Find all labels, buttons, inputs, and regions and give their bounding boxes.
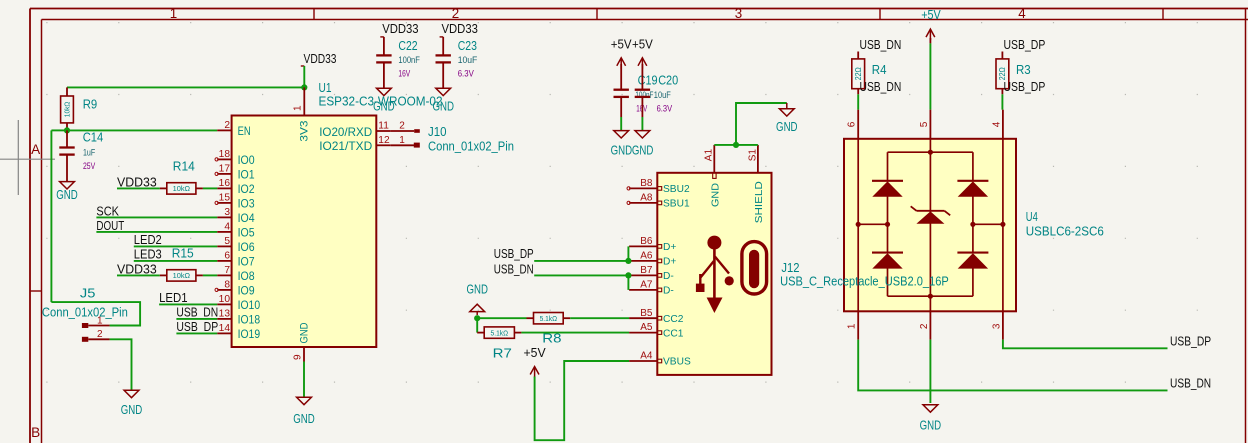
wire A1-S1 to GND [714, 144, 758, 146]
svg-text:R4: R4 [872, 62, 887, 77]
svg-text:USB_DN: USB_DN [860, 79, 902, 94]
svg-text:USB_DP: USB_DP [176, 319, 218, 334]
U1 pin 6 IO7 [217, 260, 231, 262]
svg-text:10kΩ: 10kΩ [63, 101, 72, 117]
connector J10 pin 1 [391, 144, 414, 146]
svg-text:13: 13 [219, 309, 231, 320]
svg-text:LED3: LED3 [134, 247, 162, 262]
J12 pin S1 SHIELD [757, 145, 759, 173]
svg-text:5: 5 [224, 236, 230, 247]
J12 pin A8 SBU1 [629, 202, 657, 204]
U1 pin 14 IO19 [217, 332, 231, 334]
svg-text:LED1: LED1 [159, 290, 188, 305]
svg-text:USB_C_Receptacle_USB2.0_16P: USB_C_Receptacle_USB2.0_16P [780, 273, 949, 288]
svg-text:J10: J10 [428, 124, 447, 139]
wire USB_DP to A6 [534, 260, 629, 262]
ground GND right of J12 [779, 109, 794, 116]
ground GND below C19 [614, 131, 629, 138]
wire GND to R8 [477, 317, 526, 319]
svg-text:EN: EN [238, 124, 251, 138]
svg-text:GND: GND [373, 100, 395, 114]
U4 internal rails [857, 139, 859, 311]
svg-text:1: 1 [399, 135, 405, 146]
svg-text:R3: R3 [1016, 62, 1031, 77]
J12 pin B7 D- [629, 274, 657, 276]
svg-text:GND: GND [432, 100, 454, 114]
U4 pin 2 [929, 311, 931, 339]
svg-text:GND: GND [56, 188, 78, 202]
ground GND below J5 [124, 390, 139, 397]
svg-text:R9: R9 [83, 97, 98, 112]
diode D-bottomleft in U4 [872, 252, 903, 254]
ground GND below C20 [635, 131, 650, 138]
svg-text:B: B [31, 425, 40, 440]
svg-text:10uF: 10uF [654, 89, 671, 100]
wire B7 to A7 [627, 275, 629, 290]
node VDD33 junction [301, 84, 307, 90]
svg-text:IO3: IO3 [238, 197, 255, 211]
J12 USB logo icon [696, 236, 734, 313]
svg-text:VDD33: VDD33 [304, 51, 337, 66]
U1 pin 17 IO1 [217, 173, 231, 175]
wire J5 pin2 to GND [110, 339, 132, 390]
J12 pin A7 D- [629, 289, 657, 291]
svg-text:IO7: IO7 [238, 255, 255, 269]
svg-text:+5V: +5V [632, 37, 653, 52]
svg-text:USB_DN: USB_DN [176, 304, 218, 319]
svg-text:SBU2: SBU2 [663, 184, 690, 195]
ic U1 ESP32-C3-WROOM-02 body [232, 116, 377, 348]
connector J12 USB-C receptacle body [657, 173, 771, 375]
svg-text:B8: B8 [640, 178, 653, 189]
svg-text:17: 17 [219, 164, 231, 175]
diode D-topright in U4 [957, 180, 988, 182]
svg-text:U4: U4 [1026, 209, 1038, 224]
wire U4 pin1 to USB_DN [858, 340, 1167, 391]
svg-text:D-: D- [663, 271, 674, 282]
U1 pin 13 IO18 [217, 318, 231, 320]
resistor R8 5.1k [527, 317, 534, 319]
svg-text:B7: B7 [640, 265, 653, 276]
U1 pin 7 IO8 [217, 274, 231, 276]
svg-text:D+: D+ [663, 242, 676, 253]
svg-text:B6: B6 [640, 236, 653, 247]
wire LED2 to IO6 [134, 245, 217, 247]
svg-text:5.1kΩ: 5.1kΩ [491, 328, 509, 337]
svg-text:18: 18 [219, 149, 231, 160]
svg-text:1: 1 [847, 323, 858, 329]
U4 pin 3 [1002, 311, 1004, 339]
svg-text:IO8: IO8 [238, 269, 255, 283]
capacitor C23 10uF [442, 54, 444, 56]
U1 pin 1 3V3 [303, 87, 305, 115]
svg-text:+5V: +5V [921, 7, 941, 22]
svg-text:5: 5 [919, 121, 930, 127]
svg-text:C23: C23 [458, 38, 477, 53]
node B7 junction [625, 272, 631, 278]
svg-text:C20: C20 [658, 73, 678, 88]
wire VDD33 to R15 [117, 274, 160, 276]
wire LED1 to IO10 [159, 303, 217, 305]
wire A6 to B6 [627, 246, 629, 261]
svg-text:10kΩ: 10kΩ [173, 184, 191, 193]
svg-text:16: 16 [219, 178, 231, 189]
wire GND junction down to R7 [476, 318, 478, 332]
svg-text:IO20/RXD: IO20/RXD [319, 125, 372, 139]
svg-text:S1: S1 [747, 149, 758, 162]
svg-text:10uF: 10uF [458, 54, 478, 65]
diode D-topleft in U4 [872, 180, 903, 182]
J12 pin A6 D+ [629, 260, 657, 262]
capacitor C14 [66, 130, 68, 147]
svg-text:USB_DP: USB_DP [1170, 333, 1211, 348]
node EN junction [64, 127, 70, 133]
svg-text:USB_DN: USB_DN [494, 262, 534, 277]
svg-text:D-: D- [663, 286, 674, 297]
svg-text:+5V: +5V [524, 345, 547, 360]
svg-text:USB_DN: USB_DN [1170, 375, 1211, 390]
svg-text:GND: GND [467, 282, 488, 296]
U1 pin 8 IO9 [217, 289, 231, 291]
connector J5 pin 2 [88, 338, 109, 340]
svg-text:15: 15 [219, 193, 231, 204]
J12 pin A1 GND [713, 145, 715, 173]
wire R8 to CC2 [570, 317, 629, 319]
wire LED3 to IO7 [134, 260, 217, 262]
diode D-bottomright in U4 [957, 252, 988, 254]
capacitor C19 100nF [620, 89, 622, 91]
svg-text:6: 6 [847, 121, 858, 127]
svg-text:3: 3 [735, 6, 742, 21]
svg-text:IO0: IO0 [238, 153, 255, 167]
svg-text:GND: GND [121, 403, 143, 417]
U4 pin 5 [929, 110, 931, 139]
svg-text:C14: C14 [83, 129, 104, 144]
svg-text:Conn_01x02_Pin: Conn_01x02_Pin [42, 305, 128, 320]
U1 pin 9 GND [303, 347, 305, 362]
svg-text:GND: GND [920, 419, 942, 433]
svg-text:SCK: SCK [96, 203, 119, 218]
ground GND below U4 [923, 405, 938, 412]
svg-text:A4: A4 [640, 351, 653, 362]
wire R7 to CC1 [521, 332, 629, 334]
svg-text:CC2: CC2 [663, 314, 684, 325]
svg-text:2: 2 [919, 323, 930, 329]
svg-text:LED2: LED2 [134, 232, 162, 247]
svg-text:GND: GND [611, 144, 633, 158]
node A1-S1 junction [733, 142, 739, 148]
svg-text:16V: 16V [398, 67, 410, 78]
svg-text:R15: R15 [172, 246, 194, 261]
svg-text:A8: A8 [640, 193, 653, 204]
svg-text:IO6: IO6 [238, 240, 255, 254]
svg-text:GND: GND [776, 120, 798, 134]
svg-text:SBU1: SBU1 [663, 199, 690, 210]
svg-text:11: 11 [378, 121, 389, 132]
connector J5 pin 1 [88, 325, 109, 327]
J12 pin B8 SBU2 [629, 187, 657, 189]
svg-text:IO4: IO4 [238, 211, 255, 225]
svg-text:10kΩ: 10kΩ [173, 271, 191, 280]
resistor R15 10k [160, 274, 167, 276]
svg-text:C22: C22 [398, 38, 417, 53]
U4 junction dots [928, 150, 933, 155]
U1 pin 4 IO5 [217, 231, 231, 233]
J12 pin A4 VBUS [629, 360, 657, 362]
svg-text:USB_DN: USB_DN [860, 37, 902, 52]
svg-text:USBLC6-2SC6: USBLC6-2SC6 [1026, 224, 1104, 239]
svg-text:USB_DP: USB_DP [1004, 79, 1046, 94]
svg-text:IO1: IO1 [238, 168, 255, 182]
svg-text:6: 6 [224, 251, 230, 262]
wire R15 to IO8 [203, 274, 217, 276]
wire USB_DP to IO19 [176, 332, 217, 334]
svg-text:1uF: 1uF [83, 146, 95, 157]
svg-text:25V: 25V [83, 160, 96, 171]
svg-text:6.3V: 6.3V [657, 103, 673, 114]
wire EN branch to J5 [51, 302, 140, 325]
svg-text:IO2: IO2 [238, 182, 255, 196]
svg-text:7: 7 [224, 265, 230, 276]
svg-text:2: 2 [399, 121, 405, 132]
svg-text:SHIELD: SHIELD [754, 181, 765, 223]
U1 pin 12 IO21/TXD [376, 144, 391, 146]
svg-text:B5: B5 [640, 308, 653, 319]
svg-text:GND: GND [632, 144, 654, 158]
wire USB_DN to IO18 [176, 318, 217, 320]
svg-text:IO10: IO10 [238, 298, 261, 312]
svg-text:D+: D+ [663, 257, 676, 268]
wire EN net to U1 [67, 129, 217, 131]
U1 pin 5 IO6 [217, 245, 231, 247]
node A6 junction [625, 258, 631, 264]
connector J10 pin 2 [391, 130, 414, 132]
svg-text:+5V: +5V [611, 37, 632, 52]
svg-text:A5: A5 [640, 322, 653, 333]
svg-text:6.3V: 6.3V [458, 67, 475, 78]
svg-text:IO9: IO9 [238, 284, 255, 298]
U1 pin 10 IO10 [217, 303, 231, 305]
wire R3 to U4 pin4 [1001, 94, 1003, 109]
svg-text:IO5: IO5 [238, 226, 255, 240]
svg-text:4: 4 [991, 121, 1002, 127]
wire +5V to VBUS A4 [535, 361, 630, 440]
wire DOUT to IO5 [96, 231, 217, 233]
svg-text:A7: A7 [640, 280, 653, 291]
wire R4 to U4 pin6 [857, 94, 859, 109]
wire R14 to IO2 [203, 187, 217, 189]
svg-text:12: 12 [378, 135, 390, 146]
U1 pin 15 IO3 [217, 202, 231, 204]
svg-text:A6: A6 [640, 251, 653, 262]
wire SCK to IO4 [96, 216, 217, 218]
svg-text:VDD33: VDD33 [117, 174, 157, 189]
U4 pin 1 [857, 311, 859, 339]
wire VDD33 down to node [303, 66, 305, 87]
J12 pin B6 D+ [629, 245, 657, 247]
svg-text:VDD33: VDD33 [382, 21, 418, 36]
wire USB_DN to B7 [534, 274, 629, 276]
svg-text:10: 10 [219, 294, 231, 305]
svg-text:IO18: IO18 [238, 313, 261, 327]
zener TVS diode in U4 [917, 210, 945, 212]
resistor R14 10k [160, 187, 167, 189]
svg-text:J5: J5 [80, 286, 96, 301]
svg-text:R14: R14 [173, 158, 195, 173]
svg-text:VDD33: VDD33 [442, 21, 478, 36]
svg-text:8: 8 [224, 280, 230, 291]
svg-text:2: 2 [97, 329, 103, 340]
svg-text:1: 1 [293, 105, 304, 111]
svg-text:2: 2 [224, 120, 230, 131]
svg-text:3: 3 [224, 207, 230, 218]
svg-text:USB_DP: USB_DP [1004, 37, 1046, 52]
U1 pin 16 IO2 [217, 187, 231, 189]
svg-text:DOUT: DOUT [96, 218, 124, 233]
svg-text:1: 1 [97, 315, 103, 326]
svg-text:VDD33: VDD33 [117, 261, 157, 276]
resistor R4 22R [857, 52, 859, 59]
U1 pin 18 IO0 [217, 158, 231, 160]
svg-text:1: 1 [170, 6, 177, 21]
svg-text:GND: GND [293, 412, 315, 426]
svg-text:14: 14 [219, 323, 231, 334]
svg-text:USB_DP: USB_DP [494, 246, 534, 261]
svg-text:9: 9 [292, 354, 303, 360]
U1 pin 3 IO4 [217, 216, 231, 218]
svg-text:VBUS: VBUS [663, 357, 691, 368]
svg-text:Conn_01x02_Pin: Conn_01x02_Pin [428, 139, 514, 154]
svg-text:A: A [31, 142, 41, 157]
svg-text:3V3: 3V3 [299, 121, 311, 142]
wire U4 pin3 to USB_DP [1003, 340, 1168, 349]
wire +5V to U4 pin5 [929, 43, 931, 109]
svg-text:4: 4 [1018, 6, 1026, 21]
wire VDD33 rail to R9 [67, 86, 304, 88]
J12 pin B5 CC2 [629, 317, 657, 319]
svg-text:3: 3 [991, 323, 1002, 329]
svg-text:C19: C19 [638, 73, 658, 88]
svg-text:IO21/TXD: IO21/TXD [319, 139, 372, 153]
svg-text:R7: R7 [493, 346, 512, 361]
resistor R9 10k pull-up [66, 87, 68, 96]
U1 pin 11 IO20/RXD [376, 130, 391, 132]
wire U1 GND down [303, 362, 305, 398]
capacitor C20 10uF [641, 89, 643, 91]
wire EN to J5 branch [51, 129, 67, 131]
wire C19 to GND [620, 117, 622, 131]
sheet origin marker cross [0, 158, 55, 160]
ground GND below C23 [436, 88, 451, 95]
svg-text:100nF: 100nF [398, 54, 420, 65]
node R7 R8 GND junction [474, 315, 480, 321]
ic U4 USBLC6-2SC6 body [844, 139, 1016, 311]
resistor R7 5.1k [477, 332, 484, 334]
wire VDD33 to R14 [117, 187, 160, 189]
ground GND below C14 [60, 182, 75, 189]
svg-text:5.1kΩ: 5.1kΩ [540, 314, 558, 323]
U1 pin 2 EN [217, 129, 231, 131]
ground GND below C22 [377, 88, 392, 95]
svg-text:A1: A1 [704, 149, 715, 162]
U4 pin 6 [857, 110, 859, 139]
svg-text:CC1: CC1 [663, 328, 684, 339]
svg-text:GND: GND [299, 322, 311, 343]
ground GND below U1 [297, 397, 312, 404]
capacitor C22 100nF [383, 54, 385, 56]
svg-text:GND: GND [710, 183, 721, 207]
J12 USB-C connector icon [742, 242, 767, 294]
svg-text:IO19: IO19 [238, 327, 261, 341]
svg-text:2: 2 [452, 6, 459, 21]
wire U4 pin2 to GND [929, 340, 931, 403]
U4 pin 4 [1002, 110, 1004, 139]
svg-text:4: 4 [224, 222, 230, 233]
resistor R3 22R [1001, 52, 1003, 59]
wire C20 to GND [641, 117, 643, 131]
J12 pin A5 CC1 [629, 332, 657, 334]
